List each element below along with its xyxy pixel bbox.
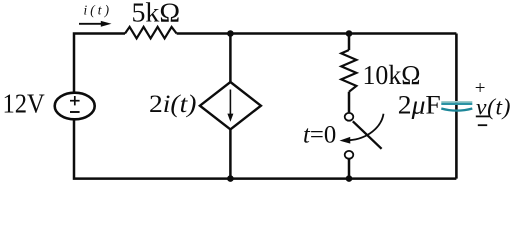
voltage source V1 12V: [55, 93, 95, 120]
svg-text:2μF: 2μF: [398, 91, 441, 120]
underline of v: [476, 115, 490, 117]
wire dependent-source branch bottom: [229, 129, 232, 178]
node junction dot top B: [346, 30, 353, 37]
wire top middle: [177, 32, 457, 35]
capacitor C1 bottom plate: [441, 109, 472, 111]
wire right branch: [455, 34, 458, 179]
svg-text:12V: 12V: [3, 88, 46, 118]
dependent current source U1 diamond: [200, 82, 261, 129]
minus sign inside source: [70, 111, 80, 113]
resistor R1 5kOhm: [125, 27, 177, 39]
resistor R2 10kOhm: [341, 50, 356, 92]
svg-text:2i(t): 2i(t): [149, 89, 196, 118]
node junction dot bottom B: [346, 175, 353, 182]
label minus polarity: [478, 124, 487, 126]
svg-text:t=0: t=0: [303, 120, 336, 149]
capacitor C1 top plate highlight: [441, 101, 472, 103]
wire top-left to 5k resistor: [74, 34, 125, 93]
switch SW1 top terminal: [345, 113, 354, 121]
node junction dot bottom A: [227, 175, 234, 182]
svg-text:10kΩ: 10kΩ: [363, 59, 421, 90]
wire switch to bottom node: [348, 159, 351, 179]
switch blade: [353, 121, 382, 149]
wire from top node to 10k resistor: [348, 34, 351, 51]
switch actuation arrow: [340, 114, 384, 144]
arrow inside dependent source: [227, 90, 233, 122]
wire left bottom: [74, 119, 456, 178]
switch SW1 bottom terminal: [345, 151, 354, 159]
current arrow: [79, 21, 112, 27]
wire dependent-source branch top: [229, 34, 232, 83]
plus sign inside source: [70, 96, 80, 105]
svg-text:5kΩ: 5kΩ: [132, 0, 181, 28]
capacitor C1 top plate: [441, 103, 472, 105]
node junction dot top A: [227, 30, 234, 37]
wire resistor to switch: [348, 92, 351, 113]
